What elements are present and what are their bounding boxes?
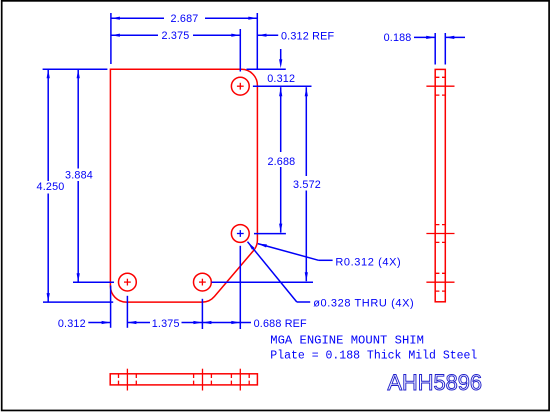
leader diameter 0.328 THRU (4X) [248,242,415,310]
dimension 2.375 [111,30,240,42]
extension line side-view left [434,33,436,65]
title line 2 [270,350,477,363]
extension line hole MID centerline right [254,233,286,235]
extension line bottom edge left [43,301,113,303]
extension line bottom holes centerline left [73,281,114,283]
svg-text:2.688: 2.688 [267,156,295,168]
side view hole hidden line 2b [435,241,445,243]
bottom view hole centerline 1 [126,369,128,391]
bottom view plate outline [110,374,257,385]
bottom view hole hidden line 3a [230,374,232,385]
svg-text:AHH5896: AHH5896 [388,370,483,395]
leader R0.312 (4X) [258,244,402,269]
part number AHH5896 [388,370,483,395]
plate outline (front view) [110,69,257,302]
bottom view hole hidden line 2b [210,374,212,385]
extension line side-view right [444,33,446,65]
svg-text:Plate = 0.188 Thick Mild Steel: Plate = 0.188 Thick Mild Steel [270,350,477,363]
extension line bottom holes centerline right [212,281,314,283]
dimension 3.884 [65,69,93,282]
side view hole hidden line 3a [435,272,445,274]
bottom view hole centerline 3 [239,369,241,391]
svg-text:2.687: 2.687 [171,13,199,25]
extension line hole BL centerline bottom [126,296,128,328]
dimension 0.188 [384,32,465,44]
svg-text:0.688 REF: 0.688 REF [254,318,307,330]
bottom view hole hidden line 2a [193,374,195,385]
svg-text:MGA ENGINE MOUNT SHIM: MGA ENGINE MOUNT SHIM [270,333,424,347]
dimension 4.250 [37,69,65,302]
side view hole centerline 1 [426,85,454,87]
dimension 0.312 top-right [267,49,295,85]
dimension 0.688 REF [202,318,307,330]
extension line right edge top [256,13,258,69]
extension line left edge bottom [110,286,112,328]
side view hole hidden line 1a [435,76,445,78]
svg-text:0.312: 0.312 [267,73,295,85]
side view plate outline [435,69,445,301]
side view hole hidden line 3b [435,290,445,292]
dimension 2.688 [267,87,295,232]
hole middle-right [231,225,249,243]
extension line left edge top [110,13,112,64]
bottom view hole hidden line 1b [135,374,137,385]
side view hole centerline 2 [426,233,454,235]
dimension 3.572 [293,87,321,281]
hole bottom-middle [194,273,212,291]
svg-text:ø0.328 THRU (4X): ø0.328 THRU (4X) [313,298,414,310]
svg-text:2.375: 2.375 [162,30,190,42]
bottom view hole hidden line 3b [248,374,250,385]
svg-text:3.884: 3.884 [65,170,93,182]
dimension 0.312 REF top [258,31,335,43]
dimension 1.375 [127,318,202,330]
bottom view hole hidden line 1a [118,374,120,385]
svg-text:4.250: 4.250 [37,181,65,193]
dimension 0.312 bottom-left [58,318,111,330]
extension line hole TR centerline right [253,85,312,87]
svg-text:1.375: 1.375 [152,318,180,330]
extension line top edge right [247,68,286,70]
svg-text:3.572: 3.572 [293,179,321,191]
extension line top edge left [43,68,108,70]
extension line hole-center top [239,29,241,72]
hole top-right [231,77,249,95]
extension line hole BM centerline bottom [201,299,203,329]
side view hole centerline 3 [426,281,454,283]
svg-text:0.312 REF: 0.312 REF [281,31,334,43]
svg-text:0.188: 0.188 [384,32,412,44]
svg-text:0.312: 0.312 [58,318,86,330]
bottom view hole centerline 2 [202,369,204,391]
hole bottom-left [119,273,137,291]
side view hole hidden line 1b [435,94,445,96]
title line 1 [270,333,424,347]
svg-text:R0.312 (4X): R0.312 (4X) [335,256,401,268]
dimension 2.687 [111,13,257,25]
side view hole hidden line 2a [435,224,445,226]
extension line hole MID centerline bottom [239,246,241,329]
